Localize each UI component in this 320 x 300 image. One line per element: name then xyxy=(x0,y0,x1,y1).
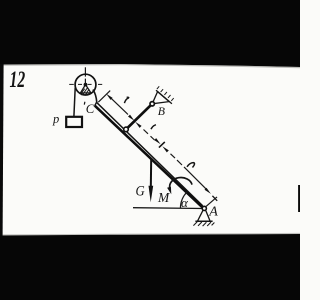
beam top edge xyxy=(97,102,203,206)
pin on beam at B xyxy=(124,127,129,132)
dimension arrow to tick xyxy=(154,138,160,144)
pulley bracket triangle xyxy=(81,85,91,93)
label G xyxy=(136,184,145,200)
pulley horizontal centerline xyxy=(69,83,102,85)
dimension line to A xyxy=(184,167,207,190)
pulley bracket hatching xyxy=(82,88,90,95)
dimension arrow to strut xyxy=(128,115,134,121)
pulley vertical centerline xyxy=(84,67,86,85)
label l2 xyxy=(151,125,156,129)
right edge mark xyxy=(298,185,300,212)
svg-text:12: 12 xyxy=(10,67,26,93)
svg-text:p: p xyxy=(52,112,59,126)
pulley wheel xyxy=(75,74,96,95)
wall hatching xyxy=(157,86,174,101)
label 12 xyxy=(10,67,26,93)
dimension arrow to C xyxy=(106,94,112,100)
support triangle A xyxy=(198,210,210,221)
beam end face C xyxy=(95,102,97,105)
svg-text:M: M xyxy=(157,190,170,205)
dimension line C-B xyxy=(111,98,128,114)
svg-text:G: G xyxy=(136,184,145,200)
extension overshoot at A xyxy=(212,196,217,201)
top band edge blur xyxy=(0,64,300,68)
svg-text:C: C xyxy=(86,102,95,116)
dimension dashes mid to A xyxy=(171,154,183,165)
angle arc xyxy=(180,192,187,209)
label l3 xyxy=(187,163,195,168)
ground hatching A xyxy=(193,222,214,226)
bottom black scan band xyxy=(0,234,300,300)
dimension extension line at C xyxy=(98,91,110,103)
beam bottom edge xyxy=(95,106,204,209)
beam body xyxy=(95,102,204,208)
pin at A xyxy=(202,206,206,210)
bottom band edge blur xyxy=(0,233,300,236)
rope left to weight xyxy=(74,88,75,117)
pulley axle dot xyxy=(84,83,88,87)
wall line xyxy=(156,90,172,104)
support base line xyxy=(195,220,212,222)
top black scan band xyxy=(0,0,300,67)
weight P box xyxy=(66,117,82,127)
dimension arrow to A xyxy=(205,188,211,194)
force G arrow xyxy=(150,158,152,189)
svg-text:α: α xyxy=(181,195,189,210)
tick at C xyxy=(83,102,86,105)
moment M arc xyxy=(170,178,192,189)
dimension arrow from strut xyxy=(135,122,141,128)
dimension extension at A xyxy=(205,197,217,207)
svg-text:B: B xyxy=(158,104,165,118)
moment arrowhead xyxy=(167,187,171,195)
label l1 xyxy=(124,98,129,103)
angle baseline xyxy=(133,207,204,210)
svg-text:A: A xyxy=(208,205,218,220)
rope right to C xyxy=(93,90,97,103)
link strut B xyxy=(126,104,152,130)
wall pin at B xyxy=(150,102,154,106)
division tick xyxy=(159,142,165,148)
wall bracket triangle at B xyxy=(152,92,169,104)
left border line xyxy=(0,64,4,236)
dimension arrow from tick xyxy=(162,146,168,152)
dimension dashes B to mid xyxy=(144,130,155,141)
